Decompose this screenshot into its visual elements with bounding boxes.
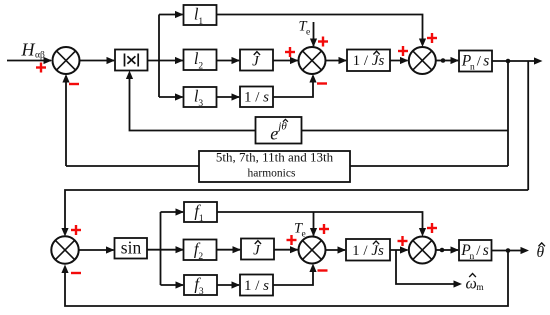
- svg-text:s: s: [263, 278, 269, 294]
- svg-text:n: n: [470, 62, 475, 72]
- svg-text:harmonics: harmonics: [248, 168, 296, 180]
- svg-text:s: s: [378, 243, 384, 259]
- svg-text:n: n: [470, 252, 475, 262]
- svg-text:θ: θ: [281, 121, 287, 133]
- svg-text:1 /: 1 /: [244, 89, 260, 105]
- svg-text:s: s: [378, 53, 384, 69]
- svg-text:ω: ω: [466, 275, 477, 292]
- svg-text:H: H: [21, 40, 36, 60]
- svg-text:2: 2: [198, 252, 203, 262]
- svg-text:1 /: 1 /: [353, 53, 369, 69]
- svg-text:s: s: [483, 242, 489, 259]
- svg-text:m: m: [476, 283, 484, 293]
- svg-text:αβ: αβ: [35, 51, 45, 61]
- svg-text:1 /: 1 /: [244, 278, 260, 294]
- svg-text:e: e: [302, 229, 306, 239]
- svg-text:s: s: [483, 53, 489, 70]
- svg-text:3: 3: [199, 287, 204, 297]
- svg-text:1: 1: [199, 214, 204, 224]
- svg-text:θ: θ: [537, 244, 545, 261]
- svg-text:3: 3: [198, 99, 203, 109]
- svg-text:sin: sin: [121, 238, 142, 258]
- svg-text:s: s: [263, 89, 269, 105]
- svg-text:e: e: [270, 124, 278, 144]
- svg-text:1: 1: [198, 17, 203, 27]
- svg-text:e: e: [306, 28, 310, 38]
- svg-text:2: 2: [198, 62, 203, 72]
- svg-text:1 /: 1 /: [352, 243, 368, 259]
- svg-text:5th, 7th, 11th and 13th: 5th, 7th, 11th and 13th: [216, 150, 334, 165]
